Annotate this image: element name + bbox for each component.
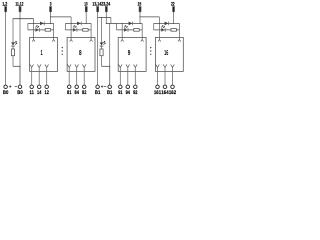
- svg-text:22: 22: [171, 2, 175, 8]
- contact stub 1 cell 1: [30, 64, 34, 71]
- svg-text:91: 91: [118, 90, 122, 96]
- minus sign: [15, 86, 17, 88]
- wire contact 92: [134, 71, 136, 85]
- svg-text:11,12: 11,12: [15, 2, 23, 8]
- terminal 23,24: [105, 7, 107, 12]
- svg-text:13,14: 13,14: [92, 2, 101, 8]
- svg-text:14: 14: [37, 90, 41, 96]
- LED indicator cell 1: [35, 25, 39, 31]
- plus sign: [9, 85, 11, 87]
- mechanical link dots: [150, 47, 151, 55]
- wire contact 91: [119, 71, 121, 85]
- terminal 11,12: [19, 7, 21, 12]
- terminal circle 94: [126, 85, 130, 89]
- jog to minus terminal group 1: [13, 65, 20, 67]
- terminal circle 161: [156, 85, 160, 89]
- corner down to coil A cell 1: [33, 19, 35, 24]
- coil chevron A cell 3: [121, 40, 124, 42]
- power LED group 2: [100, 41, 106, 46]
- contact stub 2 cell 3: [126, 64, 130, 71]
- coil chevron B cell 1: [52, 40, 55, 42]
- coil chevron B cell 3: [141, 40, 144, 42]
- upper link terminal 3 to cell 2: [51, 16, 72, 18]
- svg-text:10: 10: [84, 2, 88, 8]
- wire -B1 riser: [109, 23, 111, 85]
- diode D2: [77, 22, 81, 26]
- wire contact 12: [46, 71, 48, 85]
- coil entry wire A cell 3: [121, 23, 123, 39]
- diode D3: [129, 22, 133, 26]
- svg-text:B0: B0: [3, 90, 8, 96]
- LED indicator cell 3: [124, 25, 128, 31]
- LED indicator cell 4: [161, 25, 165, 31]
- terminal circle 162: [171, 85, 175, 89]
- wire contact 162: [172, 71, 174, 85]
- coil entry wire B cell 1: [53, 23, 55, 39]
- terminal circle 82: [82, 85, 86, 89]
- terminal circle B1: [96, 85, 100, 89]
- coil chevron B cell 4: [178, 40, 181, 42]
- coil entry wire B cell 3: [141, 23, 143, 39]
- terminal circle 14: [37, 85, 41, 89]
- terminal circle 164: [163, 85, 167, 89]
- terminal circle 84: [75, 85, 79, 89]
- svg-text:92: 92: [133, 90, 137, 96]
- contact stub 3 cell 2: [82, 64, 86, 71]
- LED rail cell 3: [117, 29, 143, 31]
- svg-text:8: 8: [79, 48, 82, 57]
- relay box 2: [67, 37, 95, 71]
- svg-text:82: 82: [82, 90, 86, 96]
- wire contact 161: [157, 71, 159, 85]
- wire from terminal 3: [50, 12, 52, 24]
- junction dots: [19, 16, 174, 67]
- contact stub 1 cell 2: [67, 64, 71, 71]
- svg-text:11: 11: [30, 90, 34, 96]
- wire LED to resistor group 2: [101, 46, 103, 49]
- relay box 4: [155, 37, 183, 71]
- contact stub 2 cell 4: [163, 64, 167, 71]
- wire contact 164: [164, 71, 166, 85]
- wire from terminal 15: [139, 12, 141, 24]
- terminal 1,2: [5, 7, 7, 12]
- wire contact 84: [76, 71, 78, 85]
- plus sign: [101, 85, 103, 87]
- svg-text:B1: B1: [95, 90, 100, 96]
- diode rail cell 3: [117, 22, 143, 24]
- wire contact 94: [127, 71, 129, 85]
- bus rail group 1: [13, 18, 34, 20]
- svg-text:15: 15: [138, 2, 142, 8]
- svg-text:81: 81: [67, 90, 71, 96]
- relay box 3: [118, 37, 146, 71]
- svg-text:94: 94: [126, 90, 130, 96]
- wire contact 81: [68, 71, 70, 85]
- wire from terminal 23,24: [105, 12, 107, 24]
- power LED group 1: [11, 41, 17, 46]
- relay box 1: [30, 37, 58, 71]
- svg-text:23,24: 23,24: [101, 2, 110, 8]
- terminal 15: [139, 7, 141, 12]
- coil chevron B cell 2: [90, 40, 93, 42]
- branch rail group 2: [98, 16, 111, 18]
- wire contact 82: [83, 71, 85, 85]
- loop left vertical cell 1: [27, 23, 29, 30]
- svg-text:3: 3: [50, 2, 52, 8]
- coil entry wire A cell 1: [33, 23, 35, 39]
- resistor cell 1: [45, 29, 50, 32]
- resistor cell 3: [134, 29, 139, 32]
- terminal 3: [50, 7, 52, 12]
- terminal circle 92: [134, 85, 138, 89]
- terminal circle 91: [119, 85, 123, 89]
- jog to minus terminal group 2: [102, 65, 110, 67]
- contact stub 3 cell 1: [45, 64, 49, 71]
- LED rail cell 1: [28, 29, 54, 31]
- wire resistor down group 2: [101, 56, 103, 67]
- diode D1: [40, 22, 44, 26]
- svg-text:1: 1: [41, 48, 43, 57]
- terminal circle 12: [45, 85, 49, 89]
- coil entry wire A cell 4: [158, 23, 160, 39]
- wire from terminal 22: [173, 12, 175, 24]
- svg-text:12: 12: [45, 90, 49, 96]
- coil chevron A cell 1: [32, 40, 35, 42]
- wire from terminal 1,2: [5, 12, 7, 86]
- diode rail cell 1: [28, 22, 54, 24]
- power LED branch group 2: top wire: [101, 17, 103, 42]
- mechanical link dots: [62, 47, 63, 55]
- wire LED to resistor group 1: [12, 46, 14, 49]
- loop left vertical cell 4: [153, 23, 155, 30]
- contact stub 1 cell 4: [156, 64, 160, 71]
- terminal circle B0: [4, 85, 8, 89]
- loop left vertical cell 3: [116, 23, 118, 30]
- contact stub 2 cell 2: [75, 64, 79, 71]
- svg-text:84: 84: [75, 90, 79, 96]
- terminal 13,14: [97, 7, 99, 12]
- contact stub 1 cell 3: [119, 64, 123, 71]
- wire contact 14: [38, 71, 40, 85]
- LED rail cell 2: [65, 29, 91, 31]
- svg-text:162: 162: [169, 90, 176, 96]
- wire from terminal 11,12: [19, 12, 21, 86]
- coil chevron A cell 4: [158, 40, 161, 42]
- svg-text:164: 164: [161, 90, 168, 96]
- wire resistor down group 1: [12, 56, 14, 67]
- svg-text:161: 161: [154, 90, 161, 96]
- svg-text:B0: B0: [17, 90, 22, 96]
- coil entry wire A cell 2: [70, 23, 72, 39]
- wire contact 11: [31, 71, 33, 85]
- loop left vertical cell 2: [64, 23, 66, 30]
- contact stub 2 cell 1: [37, 64, 41, 71]
- svg-text:B1: B1: [107, 90, 112, 96]
- resistor cell 2: [83, 29, 88, 32]
- resistor cell 4: [171, 29, 176, 32]
- terminal 22: [173, 7, 175, 12]
- minus sign: [104, 86, 106, 88]
- svg-text:16: 16: [164, 48, 168, 57]
- coil entry wire B cell 4: [178, 23, 180, 39]
- wire from terminal 10: [85, 12, 87, 24]
- terminal circle B1: [108, 85, 112, 89]
- contact stub 3 cell 3: [134, 64, 138, 71]
- upper link terminal 15 to cell 4: [140, 16, 159, 18]
- LED indicator cell 2: [73, 25, 77, 31]
- terminal circle 81: [67, 85, 71, 89]
- svg-text:1,2: 1,2: [2, 2, 7, 8]
- series resistor group 1: [11, 49, 14, 56]
- coil entry wire B cell 2: [90, 23, 92, 39]
- LED rail cell 4: [154, 29, 180, 31]
- terminal circle 11: [30, 85, 34, 89]
- diode rail cell 4: [154, 22, 180, 24]
- terminal circle B0: [18, 85, 22, 89]
- power LED branch group 1: top wire: [12, 19, 14, 43]
- diode rail cell 2: [65, 22, 91, 24]
- coil chevron A cell 2: [70, 40, 73, 42]
- series resistor group 2: [100, 49, 103, 56]
- diode D4: [165, 22, 169, 26]
- svg-text:9: 9: [128, 48, 131, 57]
- contact stub 3 cell 4: [171, 64, 175, 71]
- terminal 10: [85, 7, 87, 12]
- wire from terminal 13,14: [97, 12, 99, 86]
